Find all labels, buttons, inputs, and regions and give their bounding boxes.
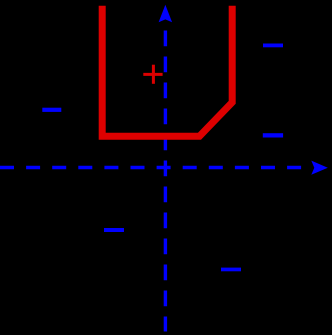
y axis arrowhead	[159, 5, 173, 23]
minus sign bottom left	[104, 228, 124, 232]
minus sign mid right	[263, 133, 283, 137]
plus sign	[143, 65, 162, 84]
minus sign top right	[263, 44, 283, 48]
y axis (dashed)	[164, 31, 167, 332]
minus sign left	[42, 108, 61, 112]
minus sign bottom right	[221, 268, 241, 272]
x axis arrowhead	[311, 161, 328, 175]
x axis (dashed)	[0, 166, 309, 169]
red contour (U shape)	[102, 6, 232, 137]
